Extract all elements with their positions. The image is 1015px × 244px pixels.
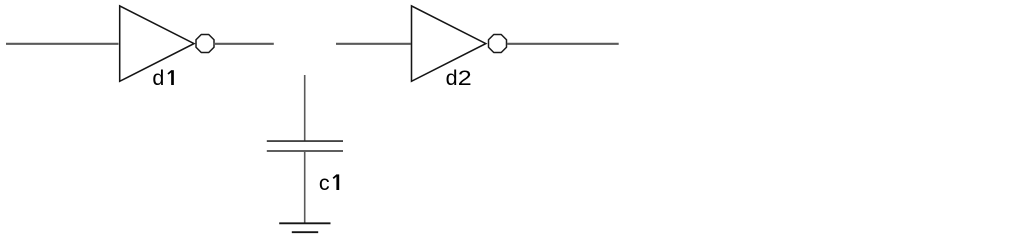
wire: d1 input net [6,43,119,45]
inverter d2 triangle [412,6,486,81]
label c1 digit 1 [333,174,338,190]
svg-text:d: d [152,66,164,90]
wire: node A down to capacitor c1 [304,75,306,141]
svg-text:c: c [319,171,330,195]
ground bar 2 [292,231,318,233]
svg-text:2: 2 [458,66,472,90]
wire: d2 output net [507,43,619,45]
wire: node A input of d2 [336,43,411,45]
inverter d2 bubble [489,35,507,53]
capacitor c1 top plate [267,140,343,142]
svg-text:d: d [446,66,458,90]
inverter d1 triangle [120,6,194,81]
inverter d1 bubble [196,35,214,53]
label d1 digit 1 [168,70,173,85]
wire: capacitor c1 to ground [304,151,306,223]
capacitor c1 bottom plate [267,150,343,152]
wire: d1 output to node A [213,43,274,45]
ground bar 1 [279,222,330,224]
